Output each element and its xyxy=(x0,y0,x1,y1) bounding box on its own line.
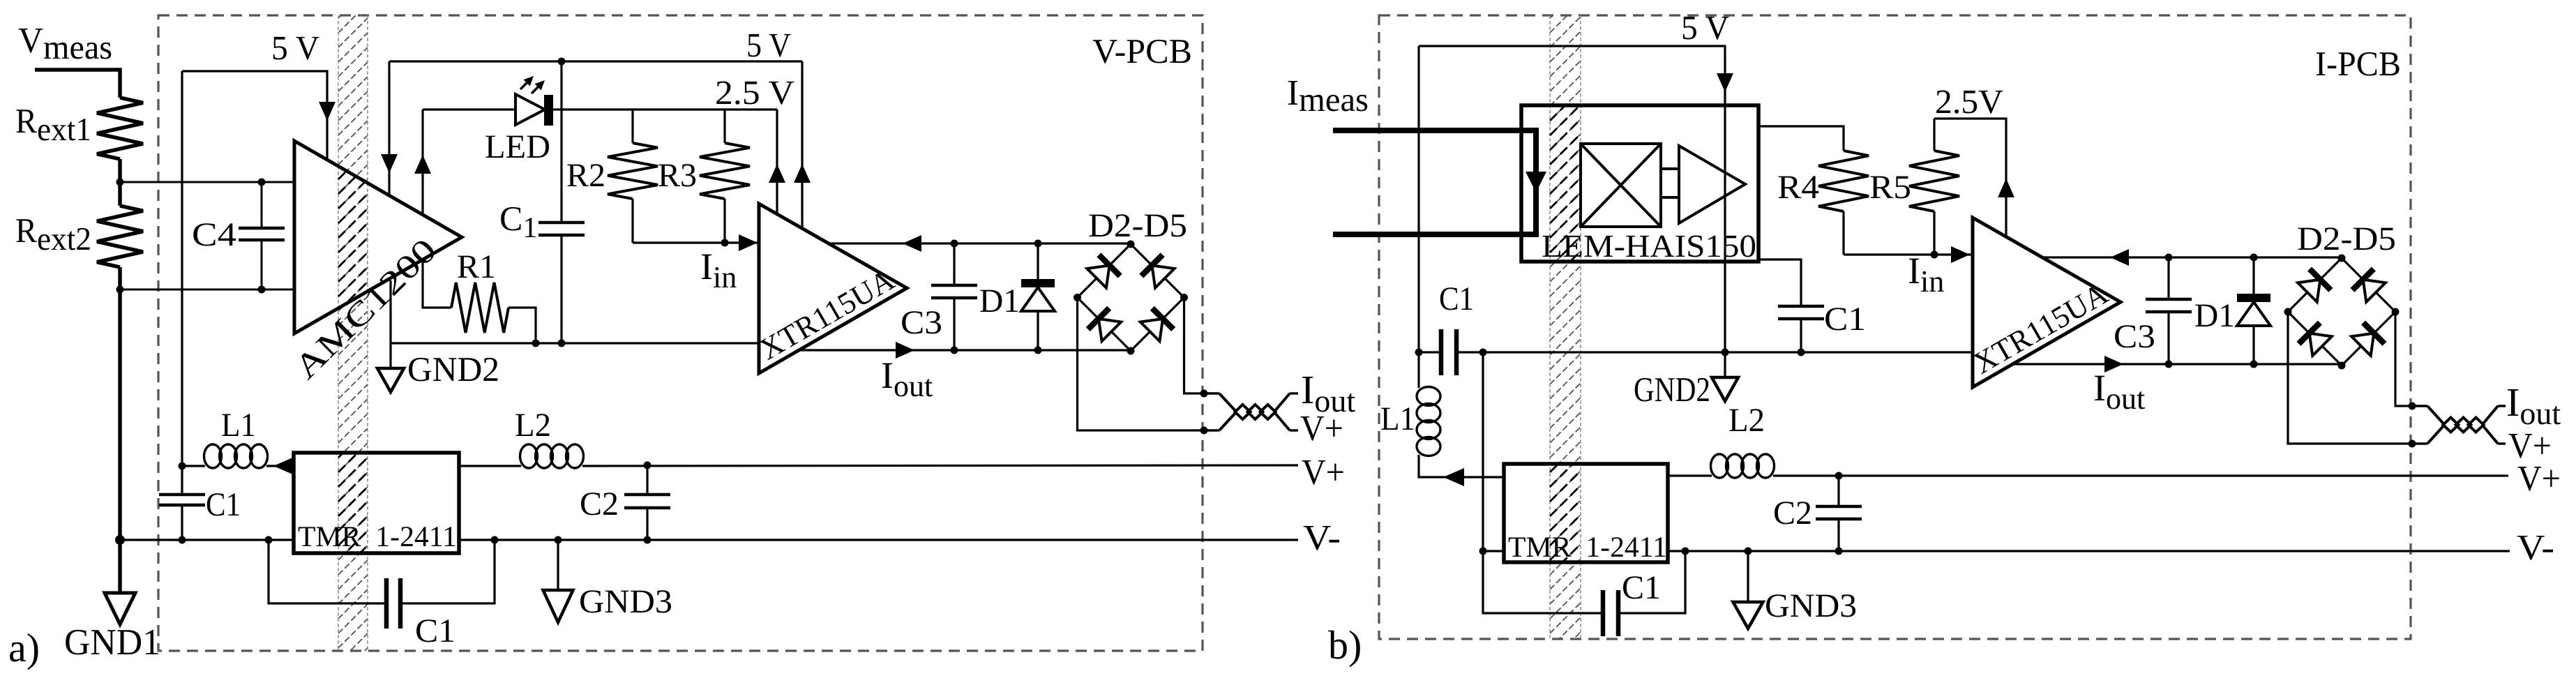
DC/DC converter TMR 1-2411 (b) xyxy=(1504,464,1668,562)
DC/DC converter TMR 1-2411 (a) xyxy=(294,453,459,553)
svg-text:TMR 1-2411: TMR 1-2411 xyxy=(298,521,457,553)
svg-text:GND3: GND3 xyxy=(1765,587,1857,624)
svg-text:R4: R4 xyxy=(1777,169,1819,206)
wire TMR out to L2 and V+ rail (b) xyxy=(1668,474,1712,476)
diode D1 zener (a) xyxy=(1037,243,1039,279)
svg-text:V-PCB: V-PCB xyxy=(1092,31,1192,70)
black hatch where strip crosses AMC1200 xyxy=(338,0,368,677)
black hatch where strip crosses TMR (a) xyxy=(338,0,368,677)
ground GND1 xyxy=(105,593,135,624)
node V- junctions (a) xyxy=(115,535,125,545)
dashed PCB border I-PCB (b) xyxy=(1379,15,2411,639)
svg-text:V-: V- xyxy=(1303,518,1341,558)
svg-text:2.5 V: 2.5 V xyxy=(715,73,794,112)
twisted pair crossover (b) xyxy=(2412,405,2427,407)
wire XTR Iout line (a) xyxy=(799,349,1131,351)
capacitor C1 feedthrough bottom (a) xyxy=(269,540,386,603)
wire 2.5V drop into XTR (a) xyxy=(776,110,778,214)
node GND2 rail tap (b) xyxy=(1722,349,1729,356)
ground GND2 (a) xyxy=(389,343,391,368)
node return/C3/D1 (b) xyxy=(2165,254,2173,262)
wire XTR return line (a) xyxy=(829,242,1131,244)
svg-text:Imeas: Imeas xyxy=(1287,73,1369,119)
ground GND2 (b) xyxy=(1724,352,1726,377)
svg-text:5 V: 5 V xyxy=(271,29,319,67)
wire left vertical supply rail x=261 xyxy=(181,71,183,495)
svg-text:C1: C1 xyxy=(1824,301,1866,338)
wire LED/C1 column x=804 xyxy=(560,61,562,223)
svg-text:TMR 1-2411: TMR 1-2411 xyxy=(1508,532,1667,564)
svg-text:V-: V- xyxy=(2517,528,2554,568)
node divider tap lower xyxy=(116,286,124,294)
node Iout/C3/D1 xyxy=(951,347,958,354)
inductor L1 (b) xyxy=(1417,352,1419,388)
inductor L1 (a) xyxy=(204,444,222,468)
capacitor C2 (a) xyxy=(646,465,648,495)
capacitor C1 series (b) xyxy=(1419,351,1441,353)
node Iout/C3/D1 (b) xyxy=(2165,361,2173,368)
node crossover taps (a) xyxy=(1200,390,1208,398)
svg-text:a): a) xyxy=(8,625,40,670)
wire XTR Iout line (b) xyxy=(2012,363,2342,365)
isolation barrier strip (a) xyxy=(338,0,368,677)
node divider tap upper xyxy=(116,179,124,186)
svg-text:C1: C1 xyxy=(206,486,241,523)
diode D1 zener (b) xyxy=(2252,257,2254,294)
node series C1 left (b) xyxy=(1415,349,1423,356)
op-amp U2 XTR115UA (b) xyxy=(1973,218,2121,387)
svg-text:I-PCB: I-PCB xyxy=(2315,44,2401,83)
diode D4 (bottom-left, b) xyxy=(2310,333,2332,356)
wire 2.5V into XTR (b) xyxy=(1934,119,2006,236)
svg-text:L1: L1 xyxy=(1380,400,1415,437)
diode bridge D2-D5 (b) xyxy=(2288,258,2342,312)
svg-text:L2: L2 xyxy=(1728,402,1765,439)
svg-text:D1: D1 xyxy=(979,283,1020,319)
svg-text:5 V: 5 V xyxy=(1681,8,1729,47)
svg-text:V+: V+ xyxy=(1300,409,1343,449)
wire bridge left vertex to crossover (a) xyxy=(1078,298,1205,431)
node top rail / LED column xyxy=(558,58,566,66)
wire V+ rail (a) xyxy=(182,465,205,467)
wire 5V drop into XTR (a) xyxy=(801,61,803,229)
capacitor C3 (a) xyxy=(953,243,955,285)
ground GND3 (b) xyxy=(1747,551,1749,602)
node C2 top (a) xyxy=(644,462,651,469)
isolation barrier strip (b) xyxy=(1550,0,1581,663)
svg-text:D2-D5: D2-D5 xyxy=(2297,220,2396,257)
resistor R2 xyxy=(631,110,633,143)
diode D3 (top-right, b) xyxy=(2363,280,2386,302)
inductor L2 (a) xyxy=(520,444,538,468)
node series C1 right (b) xyxy=(1479,349,1487,356)
wire bridge right vertex to crossover (a) xyxy=(1184,298,1205,394)
resistor R3 xyxy=(723,110,725,143)
wire Imeas thick in xyxy=(1333,130,1536,234)
wire XTR return line (b) xyxy=(2042,256,2342,258)
svg-text:Vmeas: Vmeas xyxy=(18,21,112,66)
wire V- drop column (b) xyxy=(1482,352,1484,551)
svg-text:GND3: GND3 xyxy=(579,583,672,620)
wire Rext1 to Rext2 xyxy=(118,159,122,206)
node R3 bottom xyxy=(721,239,729,247)
twisted pair crossover (a) xyxy=(1204,392,1219,394)
node crossover taps (b) xyxy=(2409,402,2416,410)
capacitor C1 (left filter, a) xyxy=(159,493,205,497)
arrow Imeas current direction xyxy=(1526,172,1546,193)
capacitor C2 (b) xyxy=(1837,476,1839,506)
svg-text:GND2: GND2 xyxy=(1634,370,1710,409)
svg-text:R1: R1 xyxy=(457,248,496,285)
svg-text:C2: C2 xyxy=(580,485,619,522)
inductor L2 (b) xyxy=(1711,454,1728,478)
svg-text:GND1: GND1 xyxy=(64,622,160,663)
diode D2 (top-left) xyxy=(1087,265,1109,287)
wire LED row / 2.5V rail (a) xyxy=(423,108,515,110)
wire Vmeas lead xyxy=(35,70,120,98)
svg-text:R2: R2 xyxy=(566,157,605,194)
arrow into TMR from L1 (a) xyxy=(278,465,294,467)
LEM sensing element (crossed box) xyxy=(1581,144,1661,227)
node LEM C1 tap (b) xyxy=(1798,349,1805,356)
resistor Rext1 xyxy=(97,98,143,159)
svg-text:LED: LED xyxy=(485,128,550,165)
svg-text:C2: C2 xyxy=(1773,495,1812,532)
wire 5V pin into AMC top xyxy=(388,61,390,195)
diode D3 (top-right) xyxy=(1152,265,1174,287)
capacitor C1 feedthrough bottom (b) xyxy=(1483,551,1603,613)
svg-text:L2: L2 xyxy=(515,407,551,444)
wire left supply column (b) xyxy=(1417,46,1419,352)
svg-text:C1: C1 xyxy=(1439,280,1474,317)
black hatch where strip crosses TMR (b) xyxy=(1550,0,1581,663)
capacitor C1 LEM output filter (b) xyxy=(1758,259,1801,306)
node bridge vertices (b) xyxy=(2338,255,2346,262)
wire V- rail (a) xyxy=(120,539,294,541)
LED emission arrows xyxy=(520,78,532,89)
diode D2 (top-left, b) xyxy=(2298,280,2320,302)
wire bridge right vertex to crossover (b) xyxy=(2395,312,2412,406)
svg-text:R5: R5 xyxy=(1869,169,1911,206)
svg-text:V+: V+ xyxy=(2508,426,2552,466)
svg-text:V+: V+ xyxy=(1302,453,1345,492)
wire bridge left vertex to crossover (b) xyxy=(2288,312,2412,444)
svg-text:GND2: GND2 xyxy=(407,349,499,389)
wire V- rail (b) xyxy=(1483,550,1504,552)
svg-text:L1: L1 xyxy=(221,407,256,444)
wire 5V supply (a) xyxy=(182,71,327,160)
wire divider tap upper to AMC +in xyxy=(120,181,294,183)
node bridge vertices (a) xyxy=(1127,241,1135,248)
LED diode xyxy=(515,94,545,125)
op-amp U2 XTR115UA (a) xyxy=(759,204,907,373)
diode bridge D2-D5 (a) xyxy=(1078,244,1131,298)
LEM output amplifier triangle xyxy=(1679,146,1745,223)
wire LEM internal links xyxy=(1661,167,1679,170)
capacitor C1 (LED column, a) xyxy=(538,221,585,225)
svg-text:D2-D5: D2-D5 xyxy=(1088,207,1187,244)
svg-text:C3: C3 xyxy=(2114,318,2155,355)
wire AMC GND pin to GND2 rail xyxy=(389,280,391,343)
current sensor LEM-HAIS150 xyxy=(1521,105,1758,262)
resistor R1 feedback xyxy=(423,259,451,308)
node R5 bottom (b) xyxy=(1931,251,1938,259)
node return/C3/D1 xyxy=(951,240,958,248)
svg-text:2.5V: 2.5V xyxy=(1935,82,2003,121)
wire GND2 rail to XTR (a) xyxy=(391,342,759,344)
black hatch where strip crosses LEM sensor xyxy=(1550,0,1581,663)
svg-text:D1: D1 xyxy=(2194,297,2235,334)
wire Iin into XTR115UA (a) xyxy=(633,241,759,243)
svg-text:R3: R3 xyxy=(658,157,697,194)
svg-text:5 V: 5 V xyxy=(746,26,791,64)
capacitor C3 (b) xyxy=(2167,257,2169,299)
svg-text:b): b) xyxy=(1328,622,1362,668)
op-amp U1 AMC1200 isolation amplifier xyxy=(294,141,462,333)
wire TMR out to L2 and V+ rail (a) xyxy=(459,465,521,467)
node V- junctions (b) xyxy=(1479,548,1487,555)
wire top 5V rail (a) xyxy=(389,60,802,62)
wire LED anode from AMC xyxy=(421,110,423,215)
svg-text:C1: C1 xyxy=(1622,569,1661,606)
diode D5 (bottom-right, b) xyxy=(2351,333,2374,356)
svg-text:C4: C4 xyxy=(192,216,236,253)
wire divider tap lower to AMC -in xyxy=(120,289,294,291)
ground GND3 (a) xyxy=(557,540,559,590)
svg-text:C3: C3 xyxy=(901,304,942,341)
wire Rext2 to GND1 xyxy=(118,267,122,593)
wire Iin line (b) xyxy=(1844,253,1973,255)
wire 5V supply (b) xyxy=(1419,46,1725,352)
resistor R5 xyxy=(1909,151,1959,211)
node L1 tap on supply column xyxy=(179,462,186,470)
resistor R4 xyxy=(1818,151,1869,211)
svg-text:C1: C1 xyxy=(415,612,455,649)
resistor Rext2 xyxy=(97,206,143,267)
node C2 top (b) xyxy=(1835,472,1843,480)
node R1 right / rail xyxy=(532,340,540,347)
capacitor C4 xyxy=(261,182,263,228)
diode D4 (bottom-left) xyxy=(1099,319,1121,341)
dashed PCB border V-PCB (a) xyxy=(158,15,1203,651)
diode D5 (bottom-right) xyxy=(1140,319,1163,341)
wire LEM out to R4 (b) xyxy=(1758,126,1844,151)
wire GND2 rail (b) xyxy=(1483,351,1973,353)
